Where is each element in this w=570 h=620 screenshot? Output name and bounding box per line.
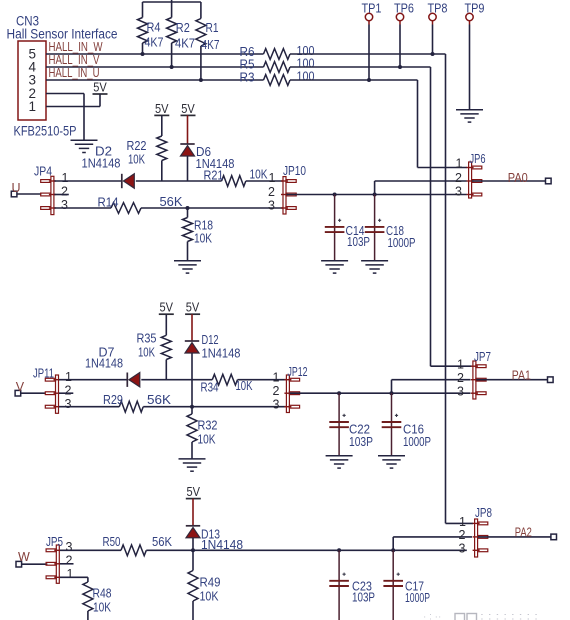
ground CN3 pin2 — [71, 140, 98, 152]
wire PA1 — [476, 379, 547, 381]
terminal V — [15, 380, 25, 396]
diode D6 — [180, 115, 194, 181]
pin 2 — [65, 384, 72, 398]
wire bus W down — [446, 54, 474, 523]
label JP4 — [34, 164, 52, 179]
svg-text:TP6: TP6 — [394, 2, 414, 16]
svg-text:1: 1 — [457, 358, 464, 372]
pin 1 — [459, 515, 466, 529]
pin 2 — [273, 384, 280, 398]
wire PA2 — [478, 536, 551, 538]
svg-text:103P: 103P — [352, 590, 375, 605]
capacitor C22 — [329, 393, 349, 456]
test point TP9 — [465, 2, 485, 25]
wire HALL_IN_W — [46, 53, 264, 55]
pin 3 — [459, 542, 466, 556]
wire D2 to node — [136, 180, 188, 182]
diode D2 — [122, 174, 135, 188]
junction R2/HALL_IN_V — [170, 65, 174, 69]
svg-text:JP10: JP10 — [283, 163, 306, 178]
svg-text:HALL_IN_V: HALL_IN_V — [49, 53, 101, 67]
svg-text:R32: R32 — [198, 418, 218, 433]
net label PA0 — [508, 170, 528, 185]
resistor R18 — [183, 208, 214, 261]
resistor R34 — [192, 374, 286, 394]
wire 56K row2 — [143, 406, 286, 408]
resistor R48 — [83, 582, 112, 620]
svg-text:3: 3 — [268, 199, 275, 213]
pin 2 — [455, 171, 462, 185]
label C22 — [349, 422, 373, 450]
svg-text:HALL_IN_U: HALL_IN_U — [49, 66, 100, 80]
svg-text:R49: R49 — [200, 575, 221, 590]
wire TP8 — [432, 25, 434, 55]
svg-text:56K: 56K — [147, 392, 171, 407]
label JP11 — [33, 366, 54, 381]
svg-text:1: 1 — [273, 371, 280, 385]
svg-text:3: 3 — [457, 385, 464, 399]
label C18 — [386, 223, 416, 250]
pin 4 — [29, 60, 37, 75]
svg-text:1000P: 1000P — [405, 590, 430, 605]
junction R1/HALL_IN_U — [199, 78, 203, 82]
svg-text:JP11: JP11 — [33, 366, 54, 381]
wire JP7 pin2 line — [392, 380, 471, 394]
net label HALL_IN_W — [49, 40, 103, 54]
connector JP5 — [46, 545, 61, 583]
resistor R50 — [103, 534, 173, 556]
resistor R3 — [240, 69, 315, 86]
connector JP11 — [45, 375, 60, 413]
terminal U — [11, 181, 20, 197]
pin 2 — [66, 554, 73, 568]
pin 1 — [456, 157, 463, 171]
ground R32 — [179, 459, 206, 471]
wire HALL_IN_W to bus — [290, 53, 446, 55]
svg-text:56K: 56K — [152, 534, 172, 549]
label C16 — [403, 422, 431, 450]
junction R32/row2 — [190, 405, 194, 409]
svg-text:10K: 10K — [194, 231, 212, 246]
resistor R29 — [103, 392, 171, 412]
resistor R4 — [138, 2, 164, 54]
connector JP10 — [281, 177, 296, 214]
label Hall Sensor Interface — [7, 27, 118, 42]
net label PA2 — [515, 525, 532, 540]
capacitor C14 — [325, 195, 345, 261]
svg-text:56K: 56K — [160, 194, 183, 209]
pin 3 — [61, 198, 68, 212]
power port 5V D13 — [186, 484, 201, 499]
svg-text:R1: R1 — [206, 20, 219, 35]
power port 5V R35 — [159, 300, 174, 315]
svg-text:5V: 5V — [187, 484, 201, 499]
label JP12 — [288, 364, 308, 379]
connector JP8 — [473, 519, 488, 557]
svg-text:2: 2 — [65, 384, 72, 398]
svg-text:R14: R14 — [98, 195, 119, 210]
svg-text:JP12: JP12 — [288, 364, 308, 379]
pin 2 — [457, 371, 464, 385]
wire CN3 pin1 to 5V — [46, 94, 100, 107]
svg-text:5V: 5V — [160, 300, 174, 315]
wire JP4 pin1 to D2 — [55, 180, 122, 182]
svg-text:PA0: PA0 — [508, 170, 528, 185]
wire W to JP5 pin2 — [22, 563, 48, 565]
junction C14 — [333, 193, 337, 197]
svg-text:10K: 10K — [138, 345, 155, 360]
svg-text:2: 2 — [455, 171, 462, 185]
pin 3 — [457, 385, 464, 399]
resistor R49 — [188, 550, 221, 620]
svg-text:PA1: PA1 — [512, 368, 531, 383]
junction R18/row1 — [186, 206, 190, 210]
svg-text:R29: R29 — [103, 392, 123, 407]
svg-text:1N4148: 1N4148 — [202, 346, 241, 361]
svg-text:JP7: JP7 — [474, 349, 491, 364]
pin 2 — [268, 185, 275, 199]
junction C23 — [337, 548, 341, 552]
svg-text:PA2: PA2 — [515, 525, 532, 540]
svg-text:1: 1 — [65, 370, 72, 384]
svg-text:3: 3 — [455, 185, 462, 199]
svg-text:4K7: 4K7 — [175, 36, 195, 51]
svg-text:R21: R21 — [204, 168, 224, 183]
svg-text:R3: R3 — [240, 70, 255, 85]
connector JP7 — [471, 361, 486, 399]
power port 5V D6 — [181, 101, 196, 116]
svg-text:5V: 5V — [186, 300, 200, 315]
resistor R6 — [240, 43, 315, 59]
ground C18 — [361, 261, 388, 273]
wire TP9 to ground — [469, 25, 471, 110]
svg-text:· : ··: · : ·· — [423, 612, 441, 620]
svg-text:5V: 5V — [93, 79, 107, 94]
label JP6 — [470, 151, 486, 166]
wire node vertical row2 — [191, 380, 193, 407]
diode D12 — [185, 314, 199, 380]
svg-text:5V: 5V — [181, 101, 195, 116]
wire JP12 pin2 out — [290, 392, 471, 394]
pin 1 — [273, 371, 280, 385]
pin 3 — [268, 199, 275, 213]
label D13 — [201, 527, 243, 553]
svg-text:1000P: 1000P — [403, 434, 431, 449]
junction C16 — [390, 391, 394, 395]
label C14 — [346, 223, 371, 249]
wire JP4 pin3 to R14 — [55, 207, 112, 209]
power port 5V D12 — [185, 300, 200, 315]
net label HALL_IN_U — [49, 66, 100, 80]
svg-text:V: V — [16, 380, 25, 394]
label KFB2510-5P — [14, 124, 77, 139]
wire JP4 pin2 stub — [55, 194, 69, 196]
wire U to JP4 pin2 — [17, 193, 41, 195]
diode D13 — [186, 499, 200, 551]
svg-text:2: 2 — [457, 371, 464, 385]
junction C22 — [337, 391, 341, 395]
svg-text:100: 100 — [297, 69, 315, 84]
ground TP9 — [456, 110, 483, 122]
pin 1 — [457, 358, 464, 372]
svg-text:2: 2 — [66, 554, 73, 568]
wire 56K row1 — [141, 207, 283, 209]
svg-text:: : : : : : : :: : : : : : : : : — [480, 612, 538, 620]
wire JP11 pin1 to D7 — [59, 379, 127, 381]
label D6 — [196, 144, 235, 171]
resistor R5 — [240, 56, 315, 73]
label C17 — [405, 579, 430, 606]
svg-text:R2: R2 — [176, 20, 190, 35]
svg-text:TP1: TP1 — [362, 2, 382, 16]
wire R50 to node — [146, 549, 193, 551]
wire bus U down — [418, 80, 468, 168]
svg-text:1: 1 — [459, 515, 466, 529]
resistor R32 — [187, 407, 218, 459]
junction node row3 — [191, 548, 195, 552]
pin 1 — [29, 99, 37, 114]
svg-text:10K: 10K — [250, 167, 268, 182]
wire node row3 right — [193, 549, 467, 551]
junction C17 — [391, 548, 395, 552]
wire JP10 pin2 out — [286, 194, 466, 196]
wire bus V down — [431, 67, 472, 366]
pin 1 — [65, 370, 72, 384]
power port 5V CN3 — [93, 79, 108, 94]
svg-text:4K7: 4K7 — [202, 37, 220, 52]
label JP5 — [46, 534, 63, 549]
wire V to JP11 pin2 — [21, 392, 45, 394]
pin 5 — [29, 47, 37, 62]
svg-text:3: 3 — [273, 397, 280, 411]
net label HALL_IN_V — [49, 53, 101, 67]
svg-text:1000P: 1000P — [388, 235, 416, 250]
test point TP8 — [428, 2, 448, 25]
wire TP6 — [399, 25, 401, 68]
resistor R2 — [167, 2, 195, 67]
svg-text:1N4148: 1N4148 — [82, 156, 121, 171]
capacitor C16 — [382, 393, 402, 456]
wire HALL_IN_V — [46, 66, 264, 68]
resistor R21 — [188, 167, 284, 187]
resistor R22 — [127, 115, 167, 181]
pin 3 — [65, 397, 72, 411]
svg-text:1: 1 — [456, 157, 463, 171]
svg-text:103P: 103P — [347, 234, 370, 249]
junction R4/HALL_IN_W — [141, 52, 145, 56]
wire 5V bus to pullup resistors — [143, 0, 201, 2]
ground C14 — [321, 261, 348, 273]
resistor R14 — [98, 194, 183, 213]
svg-text:4K7: 4K7 — [145, 35, 164, 50]
pin 2 — [61, 185, 68, 199]
svg-text:R48: R48 — [93, 586, 112, 601]
connector JP6 — [467, 162, 482, 198]
wire JP5 pin2 stub — [60, 563, 74, 565]
resistor R1 — [196, 2, 220, 80]
svg-text:TP8: TP8 — [428, 2, 448, 16]
svg-text:3: 3 — [459, 542, 466, 556]
terminal W — [16, 550, 30, 567]
svg-text:U: U — [12, 181, 21, 195]
test point TP1 — [362, 2, 382, 25]
svg-text:R4: R4 — [147, 20, 161, 35]
label JP8 — [475, 505, 492, 520]
svg-text:3: 3 — [65, 397, 72, 411]
terminal PA1 — [548, 377, 554, 383]
wire HALL_IN_V to bus — [290, 66, 431, 68]
junction TP8/HALL_IN_W — [431, 52, 435, 56]
svg-text:2: 2 — [268, 185, 275, 199]
pin 3 — [273, 397, 280, 411]
wire HALL_IN_U — [46, 79, 264, 81]
pin 1 — [62, 171, 69, 185]
connector CN3 box — [18, 41, 46, 120]
svg-text:1: 1 — [62, 171, 69, 185]
capacitor C18 — [365, 195, 385, 261]
svg-text:3: 3 — [66, 540, 73, 554]
capacitor C23 — [329, 550, 349, 620]
svg-text:1N4148: 1N4148 — [85, 356, 123, 371]
ground C16 — [378, 456, 405, 468]
wire HALL_IN_U to bus — [290, 79, 418, 81]
svg-text:10K: 10K — [200, 589, 219, 604]
svg-text:R50: R50 — [103, 534, 121, 549]
svg-text:10K: 10K — [236, 378, 253, 393]
wire JP11 pin2 stub — [59, 392, 73, 394]
power port 5V R22 — [154, 101, 169, 116]
svg-text:5V: 5V — [155, 101, 169, 116]
net label PA1 — [512, 368, 531, 383]
wire CN3 pin2 to ground — [46, 94, 84, 141]
wire JP6 pin2 line — [375, 181, 467, 195]
svg-text:KFB2510-5P: KFB2510-5P — [14, 124, 77, 139]
pin 3 — [29, 73, 37, 88]
svg-text:JP6: JP6 — [470, 151, 486, 166]
svg-text:1: 1 — [29, 99, 37, 114]
pin 1 — [67, 567, 74, 581]
svg-text:R34: R34 — [201, 380, 219, 395]
svg-text:R35: R35 — [137, 331, 157, 346]
svg-text:W: W — [18, 550, 30, 564]
svg-text:3: 3 — [61, 198, 68, 212]
resistor R35 — [137, 314, 172, 380]
svg-text:2: 2 — [273, 384, 280, 398]
ground C22 — [326, 456, 353, 468]
svg-text:10K: 10K — [128, 152, 145, 167]
capacitor C17 — [383, 550, 403, 620]
junction TP1/HALL_IN_U — [367, 78, 371, 82]
svg-text:2: 2 — [61, 185, 68, 199]
svg-text:JP8: JP8 — [475, 505, 492, 520]
terminal PA2 — [551, 534, 557, 540]
svg-text:HALL_IN_W: HALL_IN_W — [49, 40, 103, 54]
test point TP6 — [394, 2, 414, 25]
wire D7 to node — [141, 379, 192, 381]
svg-text:JP4: JP4 — [34, 164, 52, 179]
label CN3 — [16, 14, 39, 29]
terminal PA0 — [546, 178, 552, 184]
svg-text:1: 1 — [269, 171, 276, 185]
svg-text:10K: 10K — [93, 600, 111, 615]
wire JP5 pin3 to R50 — [60, 549, 121, 551]
pin 2 — [29, 86, 37, 101]
junction TP6/HALL_IN_V — [398, 65, 402, 69]
label D12 — [202, 332, 241, 361]
diode D7 — [127, 373, 140, 387]
svg-text:1: 1 — [67, 567, 74, 581]
svg-text:103P: 103P — [349, 434, 373, 449]
wire JP8 pin2 line — [393, 537, 472, 550]
wire PA0 — [472, 180, 546, 182]
label D7 — [85, 345, 123, 371]
wire TP1 — [368, 25, 370, 81]
connector JP4 — [41, 176, 56, 214]
pin 3 — [455, 185, 462, 199]
svg-text:TP9: TP9 — [465, 2, 485, 16]
label JP7 — [474, 349, 491, 364]
wire JP11 pin3 to R29 — [59, 406, 119, 408]
svg-text:JP5: JP5 — [46, 534, 63, 549]
pin 3 — [66, 540, 73, 554]
connector JP12 — [284, 375, 299, 413]
pin 2 — [459, 528, 466, 542]
label JP10 — [283, 163, 306, 178]
svg-text:2: 2 — [459, 528, 466, 542]
ground R18 — [174, 261, 201, 273]
label D2 — [82, 144, 121, 171]
label C23 — [352, 579, 375, 605]
svg-text:10K: 10K — [198, 432, 216, 447]
wire JP5 pin1 to R48 — [60, 577, 88, 582]
watermark — [423, 612, 538, 620]
junction C18 — [373, 193, 377, 197]
pin 1 — [269, 171, 276, 185]
